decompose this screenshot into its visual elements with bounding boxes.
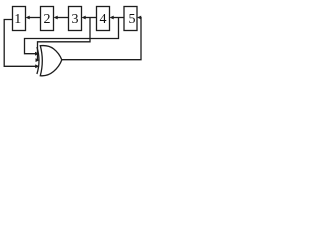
svg-text:4: 4 — [100, 12, 107, 27]
svg-text:1: 1 — [14, 12, 21, 27]
svg-text:3: 3 — [72, 12, 79, 27]
svg-text:2: 2 — [44, 12, 51, 27]
svg-text:5: 5 — [129, 12, 136, 27]
